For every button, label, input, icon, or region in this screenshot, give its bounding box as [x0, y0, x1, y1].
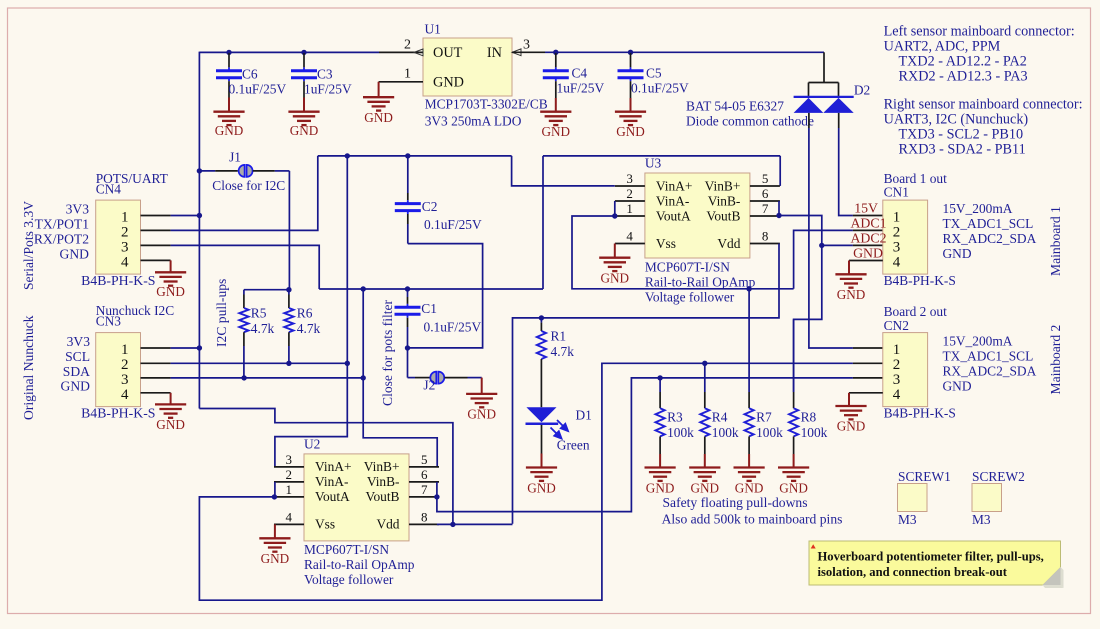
op-amp U2: [304, 454, 409, 541]
wire U3 Vdd descent: [541, 244, 779, 318]
svg-text:U1: U1: [425, 22, 441, 37]
svg-text:TXD2 - AD12.2 - PA2: TXD2 - AD12.2 - PA2: [899, 53, 1027, 69]
svg-text:VinB-: VinB-: [708, 193, 741, 208]
wire U2 VoutA big loop to CN2 pin2: [199, 363, 853, 600]
wire U3 VoutB to CN1 pin3 and R8: [779, 216, 822, 393]
svg-text:Serial/Pots 3.3V: Serial/Pots 3.3V: [21, 201, 36, 290]
svg-text:B4B-PH-K-S: B4B-PH-K-S: [81, 273, 155, 288]
svg-text:7: 7: [762, 201, 769, 216]
node ADC2-CN1pin3: [819, 243, 824, 248]
svg-text:1: 1: [121, 210, 129, 226]
svg-text:Also add 500k to mainboard pin: Also add 500k to mainboard pins: [662, 512, 843, 527]
wire TX descent to U2 VinA+: [275, 156, 347, 467]
node C1 top: [405, 286, 410, 291]
svg-text:4: 4: [121, 255, 129, 271]
svg-text:15V_200mA: 15V_200mA: [943, 201, 1013, 216]
svg-text:1: 1: [286, 482, 293, 497]
svg-text:B4B-PH-K-S: B4B-PH-K-S: [884, 273, 956, 288]
jumper J2: [408, 377, 416, 379]
wire CN3 pin4 GND stub: [141, 392, 171, 394]
svg-text:D2: D2: [854, 82, 870, 97]
svg-text:GND: GND: [290, 123, 319, 138]
svg-text:2: 2: [893, 225, 901, 241]
svg-text:GND: GND: [779, 480, 808, 495]
ground R7: [734, 466, 765, 468]
node SDA-descent: [361, 286, 366, 291]
svg-text:2: 2: [286, 467, 293, 482]
ground U3 Vss: [614, 244, 616, 258]
svg-text:Close for pots filter: Close for pots filter: [380, 299, 395, 406]
svg-text:1: 1: [626, 201, 633, 216]
resistor R7: [748, 289, 750, 392]
wire CN4 pin4 GND stub: [141, 259, 171, 261]
node 3V3-C6: [226, 50, 231, 55]
ground CN4: [155, 271, 186, 273]
svg-text:GND: GND: [527, 480, 556, 495]
wire U3 pin2-pin1 tie: [614, 201, 616, 216]
svg-text:CN4: CN4: [96, 181, 122, 196]
wire SDA descent to U2 VinB+: [363, 289, 437, 467]
wire CN4 pin2 TX/POT1: [141, 229, 171, 231]
svg-text:R1: R1: [551, 328, 567, 343]
svg-text:GND: GND: [261, 551, 290, 566]
svg-text:SCL: SCL: [65, 349, 90, 364]
svg-text:8: 8: [421, 509, 428, 524]
svg-text:CN3: CN3: [96, 314, 122, 329]
svg-text:3: 3: [286, 452, 293, 467]
node SDA-descent2: [361, 375, 366, 380]
svg-text:R3: R3: [667, 409, 683, 424]
resistor R6: [288, 290, 290, 295]
capacitor C4: [555, 53, 557, 67]
svg-text:1: 1: [893, 342, 901, 358]
svg-text:GND: GND: [646, 480, 675, 495]
LED D1: [526, 407, 556, 422]
ground CN1: [835, 273, 866, 275]
svg-text:Green: Green: [557, 437, 590, 452]
jumper J1: [197, 168, 202, 173]
svg-text:RXD3 - SDA2 - PB11: RXD3 - SDA2 - PB11: [899, 141, 1026, 157]
node R4 tap: [702, 361, 707, 366]
node C1 bottom: [405, 345, 410, 350]
wire ADC1 riser to CN1 pin2: [794, 230, 853, 288]
capacitor C1: [407, 290, 409, 297]
wire 3V3 vertical main: [198, 52, 200, 409]
capacitor C2: [407, 157, 409, 193]
svg-text:3V3: 3V3: [67, 334, 91, 349]
svg-text:100k: 100k: [712, 425, 739, 440]
node U2 pin1: [272, 494, 277, 499]
svg-text:3V3: 3V3: [66, 201, 90, 216]
svg-text:3: 3: [893, 372, 901, 388]
wire Vdd to U2 Vdd riser: [513, 318, 542, 524]
svg-text:Rail-to-Rail OpAmp: Rail-to-Rail OpAmp: [304, 557, 415, 572]
svg-text:MCP607T-I/SN: MCP607T-I/SN: [645, 260, 730, 275]
node ADC1-R7: [746, 286, 751, 291]
svg-text:Hoverboard potentiometer filte: Hoverboard potentiometer filter, pull-up…: [818, 550, 1044, 564]
svg-text:Original Nunchuck: Original Nunchuck: [21, 315, 36, 420]
svg-text:U3: U3: [645, 156, 662, 171]
svg-text:M3: M3: [972, 512, 991, 527]
svg-text:3V3 250mA LDO: 3V3 250mA LDO: [425, 113, 522, 128]
node CN3 pin1 3V3: [197, 345, 202, 350]
svg-text:VoutA: VoutA: [656, 208, 691, 223]
svg-text:5: 5: [421, 452, 428, 467]
wire U2 pin2-pin1 tie: [274, 482, 276, 497]
svg-text:TX_ADC1_SCL: TX_ADC1_SCL: [943, 349, 1034, 364]
svg-text:UART2, ADC, PPM: UART2, ADC, PPM: [884, 38, 1001, 54]
svg-text:ADC1: ADC1: [850, 216, 886, 231]
resistor R4: [704, 363, 706, 392]
wire CN3 pin3 SDA: [141, 377, 171, 379]
svg-text:GND: GND: [364, 110, 393, 125]
svg-text:GND: GND: [601, 270, 630, 285]
ground CN3: [155, 403, 186, 405]
svg-text:RXD2 - AD12.3 - PA3: RXD2 - AD12.3 - PA3: [899, 68, 1028, 84]
svg-text:15V: 15V: [854, 201, 878, 216]
svg-text:SDA: SDA: [63, 364, 90, 379]
wire U3 VinB+ riser: [542, 156, 544, 289]
svg-text:1: 1: [121, 342, 129, 358]
svg-text:6: 6: [762, 186, 769, 201]
ground CN2: [835, 405, 866, 407]
ground C6: [213, 111, 244, 113]
wire 3V3 rail from U1 OUT: [199, 51, 379, 53]
svg-text:RX_ADC2_SDA: RX_ADC2_SDA: [943, 231, 1037, 246]
svg-text:100k: 100k: [756, 425, 783, 440]
wire U2 pin6-pin7 tie: [436, 482, 438, 497]
svg-text:0.1uF/25V: 0.1uF/25V: [424, 320, 482, 335]
svg-text:GND: GND: [60, 246, 90, 261]
svg-text:B4B-PH-K-S: B4B-PH-K-S: [884, 406, 956, 421]
svg-text:C4: C4: [572, 66, 588, 81]
ground J2: [481, 378, 483, 394]
svg-text:C6: C6: [242, 66, 258, 81]
svg-text:1: 1: [404, 67, 411, 82]
svg-text:SCREW1: SCREW1: [898, 469, 951, 484]
diode D2 BAT54-05 common cathode: [823, 52, 825, 82]
svg-text:I2C pull-ups: I2C pull-ups: [214, 279, 229, 347]
svg-text:1: 1: [893, 210, 901, 226]
node R3 tap: [657, 375, 662, 380]
wire CN1 pin4 GND stub: [849, 260, 883, 262]
svg-text:GND: GND: [943, 246, 972, 261]
svg-text:4: 4: [626, 229, 633, 244]
svg-text:100k: 100k: [801, 425, 828, 440]
node SCL-R6: [286, 361, 291, 366]
wire CN4 pin3 RX/POT2: [141, 244, 171, 246]
svg-text:D1: D1: [576, 408, 592, 423]
wire U3 VoutA to ADC1 rail: [572, 216, 794, 289]
node U2 Vdd 3V3: [450, 522, 455, 527]
wire U3 pin6-pin7 tie: [778, 201, 780, 216]
wire step to U3 VinA+: [512, 156, 615, 186]
svg-text:RX/POT2: RX/POT2: [34, 231, 89, 246]
svg-text:4.7k: 4.7k: [251, 321, 275, 336]
wire CN2 pin4 GND stub: [849, 392, 883, 394]
svg-text:GND: GND: [616, 124, 645, 139]
regulator U1: [423, 38, 512, 96]
svg-text:Vdd: Vdd: [717, 236, 740, 251]
svg-text:R4: R4: [712, 409, 728, 424]
svg-text:VinB+: VinB+: [364, 459, 400, 474]
op-amp U3: [645, 173, 750, 258]
svg-text:R6: R6: [297, 305, 313, 320]
svg-text:4: 4: [286, 509, 293, 524]
svg-text:GND: GND: [156, 417, 185, 432]
node U3 pin7: [776, 213, 781, 218]
svg-text:8: 8: [762, 229, 769, 244]
svg-text:GND: GND: [467, 406, 496, 421]
svg-text:1uF/25V: 1uF/25V: [557, 81, 605, 96]
svg-text:VoutB: VoutB: [366, 489, 400, 504]
resistor R1: [540, 318, 542, 323]
svg-text:100k: 100k: [667, 425, 694, 440]
ground U2 Vss: [274, 524, 276, 538]
svg-text:5: 5: [762, 171, 769, 186]
svg-text:R8: R8: [801, 409, 817, 424]
svg-text:Vdd: Vdd: [376, 517, 399, 532]
svg-text:R5: R5: [251, 305, 267, 320]
svg-text:CN2: CN2: [884, 318, 909, 333]
svg-text:VinA-: VinA-: [315, 474, 348, 489]
svg-text:TX_ADC1_SCL: TX_ADC1_SCL: [943, 216, 1034, 231]
svg-text:4.7k: 4.7k: [297, 321, 321, 336]
svg-text:MCP1703T-3302E/CB: MCP1703T-3302E/CB: [425, 97, 548, 112]
svg-text:ADC2: ADC2: [850, 231, 886, 246]
svg-text:3: 3: [523, 37, 530, 52]
svg-text:1uF/25V: 1uF/25V: [304, 81, 352, 96]
svg-text:3: 3: [893, 240, 901, 256]
svg-text:GND: GND: [853, 246, 883, 261]
wire D2 left anode to CN2 pin1: [808, 113, 810, 128]
svg-text:M3: M3: [898, 512, 917, 527]
svg-text:C2: C2: [422, 199, 438, 214]
svg-text:GND: GND: [837, 419, 866, 434]
svg-text:Safety floating pull-downs: Safety floating pull-downs: [663, 495, 808, 510]
resistor R5: [243, 290, 245, 295]
wire U1 pin3 lead: [512, 51, 545, 53]
node railA-TXdescent: [345, 153, 350, 158]
wire 15V rail: [545, 51, 824, 53]
svg-text:BAT 54-05 E6327: BAT 54-05 E6327: [686, 99, 784, 114]
svg-text:15V_200mA: 15V_200mA: [943, 334, 1013, 349]
svg-text:4: 4: [893, 255, 901, 271]
svg-text:Rail-to-Rail OpAmp: Rail-to-Rail OpAmp: [645, 275, 756, 290]
svg-text:VoutA: VoutA: [315, 489, 350, 504]
svg-text:2: 2: [893, 357, 901, 373]
svg-text:0.1uF/25V: 0.1uF/25V: [631, 81, 689, 96]
svg-text:isolation, and connection brea: isolation, and connection break-out: [818, 565, 1008, 579]
wire rail TX/POT1: [318, 155, 512, 157]
svg-text:R7: R7: [756, 409, 772, 424]
ground C4: [540, 111, 571, 113]
svg-text:GND: GND: [542, 124, 571, 139]
svg-text:Close for I2C: Close for I2C: [212, 178, 285, 193]
resistor R8: [793, 319, 795, 392]
svg-text:Mainboard 2: Mainboard 2: [1048, 324, 1063, 394]
svg-text:0.1uF/25V: 0.1uF/25V: [229, 81, 287, 96]
svg-text:MCP607T-I/SN: MCP607T-I/SN: [304, 542, 389, 557]
svg-text:Voltage follower: Voltage follower: [304, 572, 394, 587]
svg-text:3: 3: [121, 372, 129, 388]
svg-text:IN: IN: [487, 45, 502, 61]
svg-text:TXD3 - SCL2 - PB10: TXD3 - SCL2 - PB10: [899, 126, 1024, 142]
svg-text:OUT: OUT: [433, 45, 463, 61]
svg-text:Vss: Vss: [656, 236, 676, 251]
svg-text:GND: GND: [215, 123, 244, 138]
svg-text:VinB+: VinB+: [705, 178, 741, 193]
ground R3: [645, 466, 676, 468]
wire CN4 pin1: [141, 215, 171, 217]
svg-text:RX_ADC2_SDA: RX_ADC2_SDA: [943, 364, 1037, 379]
node SCL-TX: [345, 361, 350, 366]
svg-text:Mainboard 1: Mainboard 1: [1048, 206, 1063, 276]
ground R4: [689, 466, 720, 468]
svg-text:2: 2: [121, 357, 129, 373]
wire R5-R6 tie: [244, 289, 290, 291]
svg-text:2: 2: [626, 186, 633, 201]
ground C5: [615, 111, 646, 113]
svg-text:3: 3: [121, 240, 129, 256]
wire U1 pin2 lead: [379, 51, 423, 53]
svg-text:CN1: CN1: [884, 184, 909, 199]
svg-text:4: 4: [893, 387, 901, 403]
svg-text:4: 4: [121, 387, 129, 403]
svg-text:UART3, I2C (Nunchuck): UART3, I2C (Nunchuck): [884, 111, 1029, 127]
node CN4 pin1 3V3: [197, 213, 202, 218]
svg-text:C1: C1: [421, 301, 437, 316]
svg-text:Voltage follower: Voltage follower: [645, 289, 735, 304]
node railA-C2: [405, 153, 410, 158]
wire CN3 pin2 SCL: [141, 362, 171, 364]
svg-text:2: 2: [404, 38, 411, 53]
svg-text:VinA-: VinA-: [656, 193, 689, 208]
svg-text:GND: GND: [735, 480, 764, 495]
svg-text:VoutB: VoutB: [706, 208, 740, 223]
wire C2 bottom to filter: [408, 244, 483, 348]
svg-text:J2: J2: [423, 377, 435, 392]
ground U1: [378, 82, 380, 97]
svg-text:GND: GND: [433, 74, 464, 90]
wire RX to SDA line: [319, 288, 543, 290]
svg-text:C3: C3: [317, 66, 333, 81]
svg-text:GND: GND: [837, 287, 866, 302]
svg-text:VinA+: VinA+: [656, 178, 693, 193]
node SDA-R5: [241, 375, 246, 380]
svg-text:2: 2: [121, 225, 129, 241]
svg-text:3: 3: [626, 171, 633, 186]
wire 3V3 routing to U2 Vdd: [199, 409, 453, 524]
svg-text:0.1uF/25V: 0.1uF/25V: [424, 217, 482, 232]
node 3V3-C3: [301, 50, 306, 55]
svg-text:VinA+: VinA+: [315, 459, 352, 474]
wire J1 to pullup rail: [288, 171, 290, 290]
svg-text:VinB-: VinB-: [367, 474, 400, 489]
wire CN3 pin1: [141, 347, 171, 349]
svg-text:7: 7: [421, 482, 428, 497]
ground D1: [526, 466, 557, 468]
wire D2 right anode to CN1 pin1: [838, 113, 840, 128]
wire rail B to U3 pin5: [543, 155, 780, 157]
node Vdd-R1: [539, 315, 544, 320]
svg-text:Right sensor mainboard connect: Right sensor mainboard connector:: [884, 97, 1083, 113]
svg-text:GND: GND: [61, 379, 91, 394]
svg-text:U2: U2: [304, 436, 320, 451]
svg-text:Left sensor mainboard connecto: Left sensor mainboard connector:: [884, 23, 1075, 39]
wire C1 bottom to J2: [407, 348, 409, 378]
node 15V-C5: [628, 50, 633, 55]
svg-text:Diode common cathode: Diode common cathode: [686, 113, 814, 128]
svg-text:6: 6: [421, 467, 428, 482]
wire U2 Vdd: [437, 523, 513, 525]
svg-text:C5: C5: [646, 66, 662, 81]
capacitor C5: [630, 53, 632, 67]
svg-text:J1: J1: [229, 150, 241, 165]
node 15V-C4: [553, 50, 558, 55]
svg-text:Vss: Vss: [315, 517, 335, 532]
svg-text:GND: GND: [156, 284, 185, 299]
svg-text:GND: GND: [943, 379, 972, 394]
svg-text:4.7k: 4.7k: [551, 344, 575, 359]
svg-text:GND: GND: [691, 480, 720, 495]
node U2 pin7: [434, 494, 439, 499]
wire U1 pin1 GND lead: [379, 81, 423, 83]
node U3 pin1: [612, 213, 617, 218]
svg-text:TX/POT1: TX/POT1: [35, 217, 89, 232]
capacitor C6: [228, 53, 230, 67]
ground C3: [288, 111, 319, 113]
svg-text:B4B-PH-K-S: B4B-PH-K-S: [81, 406, 155, 421]
svg-text:SCREW2: SCREW2: [972, 469, 1025, 484]
sticky note: [811, 543, 815, 547]
resistor R3: [659, 378, 661, 392]
ground R8: [778, 466, 809, 468]
node R6 top: [286, 287, 291, 292]
wire U2 VoutB to CN2 pin3: [437, 378, 853, 512]
capacitor C3: [303, 53, 305, 67]
